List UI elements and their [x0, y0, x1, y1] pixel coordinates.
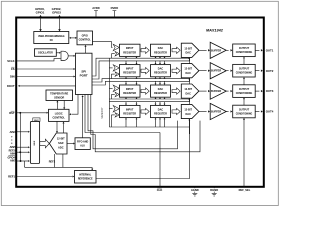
svg-text:REF1: REF1 — [8, 175, 15, 179]
svg-text:INTERNAL: INTERNAL — [79, 174, 92, 177]
pin REF1 — [8, 175, 74, 179]
svg-text:MUX: MUX — [34, 140, 36, 145]
wire temperature sensor to logic control — [63, 101, 65, 110]
svg-text:INPUT: INPUT — [126, 47, 134, 50]
svg-text:REGISTER: REGISTER — [123, 51, 136, 54]
svg-text:CONDITIONING: CONDITIONING — [236, 73, 253, 75]
pin AGND — [191, 187, 199, 196]
svg-text:DIN: DIN — [10, 75, 15, 79]
svg-text:MEMORY: MEMORY — [101, 107, 104, 119]
block internal reference — [75, 171, 97, 184]
wire AIN7 branch to internal reference — [24, 161, 92, 167]
wire RST to analog input pins — [19, 113, 21, 161]
wire output conditioning reference chain — [243, 57, 245, 105]
svg-text:REGISTER: REGISTER — [154, 72, 167, 75]
DAC channel row 3 — [109, 83, 262, 99]
wire SPI bus line 1 — [92, 58, 190, 76]
svg-text:DAC: DAC — [158, 47, 164, 50]
wire clock mux to SPI port — [68, 55, 75, 57]
svg-text:OSCILLATOR: OSCILLATOR — [38, 52, 53, 55]
svg-text:OUTPUT: OUTPUT — [239, 88, 250, 91]
pin DIN — [10, 75, 75, 79]
svg-text:AGND: AGND — [191, 188, 199, 192]
svg-text:DAC: DAC — [158, 108, 164, 111]
svg-text:REGISTER: REGISTER — [123, 113, 136, 116]
pin AIN5 — [9, 145, 29, 149]
pin AIN0 — [9, 130, 29, 134]
wire ADC reference drop 1 — [54, 154, 56, 167]
svg-text:DAC: DAC — [158, 88, 164, 91]
wire user I/O to GPIO control (bidirectional) — [69, 37, 77, 39]
pin REF_SEL — [239, 118, 251, 192]
pin REF2/AIN6 — [9, 150, 30, 156]
svg-text:OUTPUT: OUTPUT — [239, 108, 250, 111]
pin GPIO0/GPIO1 label — [35, 7, 45, 15]
wire SPI service line left — [88, 95, 178, 149]
page frame — [1, 1, 278, 205]
svg-text:OUT4: OUT4 — [266, 110, 274, 114]
svg-text:INPUT: INPUT — [126, 108, 134, 111]
block SPI port — [76, 53, 93, 94]
svg-text:FIFO AND: FIFO AND — [77, 141, 88, 144]
svg-text:SAR: SAR — [58, 141, 64, 145]
DAC channel row 1 — [111, 42, 262, 58]
svg-text:GPIO1: GPIO1 — [36, 10, 45, 14]
wire ADC to logic control — [62, 122, 64, 133]
svg-text:DVDD: DVDD — [111, 6, 119, 10]
svg-text:CONTROL: CONTROL — [53, 116, 66, 119]
wire internal reference output to DAC reference rail — [96, 58, 190, 178]
pin DOUT — [7, 84, 76, 88]
svg-text:BUFFER: BUFFER — [211, 111, 221, 114]
svg-text:DAC: DAC — [185, 72, 191, 75]
wire inter-row bus row3 lower — [109, 101, 189, 103]
wire logic control to ADC — [56, 121, 58, 132]
svg-text:12-BIT: 12-BIT — [184, 47, 192, 50]
svg-text:CONTROL: CONTROL — [79, 39, 92, 42]
pin CLK — [157, 134, 163, 192]
svg-text:AVDD: AVDD — [92, 6, 99, 10]
svg-text:OUTPUT: OUTPUT — [239, 47, 250, 50]
svg-text:REGISTER: REGISTER — [123, 72, 136, 75]
pin RST — [9, 111, 48, 115]
block oscillator — [35, 49, 57, 57]
svg-text:DGND: DGND — [210, 188, 218, 192]
svg-text:OUT2: OUT2 — [266, 69, 274, 73]
wire SPI bus line 4 — [92, 81, 190, 85]
svg-text:AIN6: AIN6 — [10, 153, 16, 156]
wire SPI bus line 3 — [92, 79, 190, 82]
svg-text:PORT: PORT — [80, 73, 88, 77]
svg-text:GPIO: GPIO — [82, 35, 88, 38]
svg-text:ALU: ALU — [80, 145, 85, 148]
svg-text:12-BIT: 12-BIT — [57, 136, 65, 140]
svg-text:INPUT: INPUT — [126, 68, 134, 71]
svg-text:CONDITIONING: CONDITIONING — [236, 113, 253, 115]
svg-text:BUFFER: BUFFER — [211, 49, 221, 52]
svg-text:AIN7: AIN7 — [10, 160, 16, 163]
svg-text:CLK: CLK — [157, 188, 163, 192]
pin DGND — [210, 187, 218, 196]
wire SPI port to logic control — [69, 95, 78, 116]
node RST junction — [19, 112, 21, 114]
svg-text:TEMPERATURE: TEMPERATURE — [50, 93, 68, 96]
wire SPI to CLK distribution — [85, 95, 160, 135]
clock mux — [61, 51, 68, 60]
wire SPI bus line 2 — [92, 61, 190, 79]
svg-text:SENSOR: SENSOR — [54, 96, 64, 99]
svg-text:OUT3: OUT3 — [266, 89, 274, 93]
wire FIFO to SPI port — [82, 95, 84, 138]
svg-text:REFERENCE: REFERENCE — [78, 177, 93, 180]
svg-text:CS: CS — [11, 67, 15, 71]
block FIFO and ALU — [75, 138, 90, 150]
wire logic control to temperature sensor — [56, 101, 58, 110]
svg-text:12-BIT: 12-BIT — [184, 68, 192, 71]
svg-text:12-BIT: 12-BIT — [184, 88, 192, 91]
svg-text:RST: RST — [9, 111, 15, 115]
svg-text:DAC: DAC — [185, 113, 191, 116]
pin SCLK — [7, 59, 61, 63]
wire ADC to FIFO — [67, 143, 75, 145]
chip outline border — [16, 18, 264, 187]
svg-text:AIN5: AIN5 — [9, 145, 16, 149]
pin AVDD — [92, 6, 99, 17]
svg-text:SCLK: SCLK — [7, 59, 14, 63]
svg-text:REGISTER: REGISTER — [154, 51, 167, 54]
pin GPIO2/GPIO3 label — [52, 7, 62, 15]
wire ADC reference drop 2 — [62, 154, 64, 167]
svg-text:DAC: DAC — [158, 68, 164, 71]
wire below-row4 bus — [109, 126, 189, 128]
svg-text:REF_SEL: REF_SEL — [239, 188, 251, 192]
ellipsis analog inputs — [11, 136, 12, 144]
svg-text:I/O: I/O — [50, 40, 53, 42]
block logic control — [49, 109, 70, 121]
wire reference into internal reference — [91, 167, 93, 170]
pin DVDD — [111, 6, 119, 17]
pin CS — [11, 67, 75, 71]
svg-text:GPIO3: GPIO3 — [52, 10, 61, 14]
svg-text:BUFFER: BUFFER — [211, 70, 221, 73]
svg-text:REF2: REF2 — [49, 161, 56, 164]
svg-text:REGISTER: REGISTER — [154, 92, 167, 95]
block user-programmable I/O — [34, 32, 69, 44]
wire register bus spine — [108, 58, 110, 127]
wire GPIO2/3 to user-programmable I/O (bidirectional) — [58, 15, 61, 32]
block analog mux — [30, 121, 39, 163]
svg-text:BUFFER: BUFFER — [211, 90, 221, 93]
svg-text:ADC: ADC — [58, 145, 64, 149]
svg-text:DAC: DAC — [185, 93, 191, 96]
svg-text:12-BIT: 12-BIT — [184, 109, 192, 112]
svg-text:USER-PROGRAMMABLE: USER-PROGRAMMABLE — [38, 35, 65, 38]
wire GPIO0/1 to user-programmable I/O (bidirectional) — [39, 15, 42, 32]
svg-text:CONDITIONING: CONDITIONING — [236, 93, 253, 95]
svg-text:INPUT: INPUT — [126, 88, 134, 91]
svg-text:OUT1: OUT1 — [266, 48, 274, 52]
wire inter-row bus row3 upper — [109, 98, 189, 100]
svg-text:MAX1342: MAX1342 — [206, 29, 224, 33]
wire oscillator to clock mux — [56, 52, 61, 54]
svg-text:OUTPUT: OUTPUT — [239, 68, 250, 71]
wire GPIO control to DAC input register row 1 — [93, 42, 113, 48]
DAC channel row 4 — [109, 103, 262, 127]
ADC 12-bit SAR — [49, 133, 67, 154]
block GPIO control — [77, 31, 93, 45]
svg-text:CONDITIONING: CONDITIONING — [236, 52, 253, 54]
block temperature sensor — [46, 90, 73, 101]
svg-text:DAC: DAC — [185, 52, 191, 55]
pin GPIO4/AIN7 — [7, 156, 29, 163]
svg-text:LOGIC: LOGIC — [55, 112, 63, 115]
wire SPI service line right — [91, 95, 200, 152]
wire register load taps — [125, 57, 190, 135]
DAC channel row 2 — [109, 63, 262, 79]
svg-text:REGISTER: REGISTER — [123, 92, 136, 95]
svg-text:REGISTER: REGISTER — [154, 113, 167, 116]
wire GPIO control to SPI port — [84, 45, 86, 53]
svg-text:DOUT: DOUT — [7, 84, 15, 88]
mux label tab — [33, 118, 40, 122]
node AIN6 junction — [19, 151, 21, 153]
svg-text:AIN0: AIN0 — [9, 130, 16, 134]
node AIN7 junction — [20, 160, 22, 162]
wire mux to ADC (bus arrow) — [40, 139, 50, 148]
